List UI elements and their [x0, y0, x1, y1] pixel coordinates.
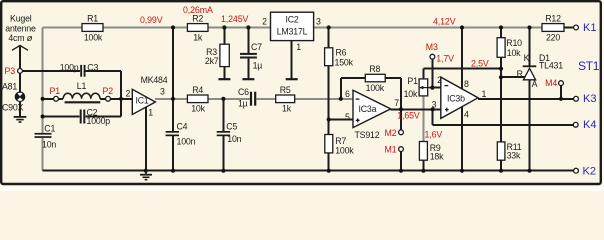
wire C3 to IC1 pin2 drop [86, 71, 122, 117]
svg-text:1,6V: 1,6V [425, 129, 443, 139]
ground bar R3 [218, 78, 230, 80]
svg-text:1,65V: 1,65V [397, 111, 420, 121]
svg-text:M1: M1 [384, 145, 396, 155]
wire left vertical R1-left / tank / C1 net [42, 28, 44, 171]
svg-text:R12: R12 [545, 14, 561, 24]
wire vertical x=173 (out node to C4) [172, 28, 174, 171]
svg-text:1,245V: 1,245V [221, 14, 249, 24]
svg-text:1000p: 1000p [87, 116, 111, 126]
wire R4 to C6 [208, 98, 250, 100]
svg-text:TL431: TL431 [539, 60, 563, 70]
wire P1 wiper [430, 87, 433, 89]
wire IC3a pin5 [329, 119, 353, 121]
svg-text:33k: 33k [507, 150, 521, 160]
wire P3 to C3 [22, 70, 80, 72]
capacitor C2 [80, 107, 111, 126]
wire P3 down to earpiece [19, 73, 21, 92]
svg-text:K1: K1 [583, 22, 596, 34]
svg-text:10k: 10k [191, 104, 205, 114]
svg-text:R5: R5 [280, 85, 291, 95]
wire C6 to R5 [256, 98, 275, 100]
svg-text:8: 8 [464, 79, 469, 89]
op-amp IC3a TS912 [345, 89, 399, 140]
svg-text:4: 4 [464, 110, 469, 120]
svg-text:5: 5 [345, 112, 350, 122]
wire pin3 node to K4 [433, 109, 574, 124]
wire R6 R7 divider vertical [328, 28, 330, 171]
wire tank row L1 / P1 / P2 to IC1 pin 2 [43, 98, 133, 100]
wire D1 cathode lead [529, 28, 531, 67]
node P1 [54, 96, 59, 101]
svg-text:3: 3 [432, 100, 437, 110]
svg-text:IC3b: IC3b [447, 94, 465, 104]
wire R8 feedback loop [341, 78, 401, 109]
svg-text:100n: 100n [177, 137, 196, 147]
svg-text:C1: C1 [44, 124, 55, 134]
svg-text:2,5V: 2,5V [471, 58, 489, 68]
node P3 [18, 69, 23, 74]
amplifier IC1 MK484 [125, 75, 167, 117]
wire pin2 node to IC3b [432, 87, 440, 89]
svg-text:C90X: C90X [2, 103, 24, 113]
wire M1 lead [400, 152, 402, 171]
svg-text:A: A [532, 79, 538, 89]
inductor L1 [63, 81, 100, 102]
resistor R4 [187, 85, 208, 114]
op-amp power regulator IC2 LM317L [262, 12, 321, 52]
potentiometer P1 [404, 76, 433, 99]
svg-text:LM317L: LM317L [277, 26, 308, 36]
svg-text:IC3a: IC3a [359, 104, 377, 114]
svg-text:Kugel: Kugel [10, 14, 32, 24]
svg-text:4,12V: 4,12V [433, 16, 456, 26]
terminal K1 [574, 25, 579, 30]
svg-text:R7: R7 [335, 136, 346, 146]
capacitor C6 [238, 87, 256, 109]
svg-text:C4: C4 [177, 121, 188, 131]
svg-text:2: 2 [437, 75, 442, 85]
svg-text:1k: 1k [193, 33, 203, 43]
wire M3 lead down to pin2 node [431, 59, 433, 88]
svg-text:IC1: IC1 [136, 96, 149, 106]
svg-text:1: 1 [148, 107, 153, 117]
svg-text:10n: 10n [42, 140, 56, 150]
svg-text:3: 3 [316, 17, 321, 27]
svg-text:M3: M3 [426, 42, 438, 52]
svg-text:1µ: 1µ [238, 99, 248, 109]
border frame [602, 0, 604, 191]
capacitor C5 [217, 121, 242, 144]
wire IC1 pin1 to ground rail [145, 107, 147, 171]
wire D1 anode lead down [529, 80, 531, 171]
ground (antenna earth) [14, 117, 27, 122]
resistor R1 [82, 14, 103, 43]
svg-text:100p: 100p [60, 62, 79, 72]
svg-text:1: 1 [296, 42, 301, 52]
svg-text:IC2: IC2 [285, 14, 298, 24]
svg-text:M2: M2 [384, 128, 396, 138]
resistor R2 [187, 14, 208, 43]
svg-text:K3: K3 [583, 93, 596, 105]
svg-text:10k: 10k [507, 48, 521, 58]
svg-text:MK484: MK484 [141, 75, 168, 85]
wire P1-bottom to R9 (1,6V net) [422, 96, 424, 142]
svg-text:10n: 10n [227, 134, 241, 144]
resistor R10 [497, 38, 522, 58]
wire R9 bottom lead [422, 160, 424, 171]
svg-text:100k: 100k [84, 33, 103, 43]
svg-text:2: 2 [262, 17, 267, 27]
svg-text:M4: M4 [545, 78, 557, 88]
node P2 [106, 96, 111, 101]
wire C2 row [43, 116, 121, 118]
node M2 [399, 130, 404, 135]
node M4 [559, 81, 564, 86]
svg-text:antenne: antenne [5, 23, 36, 33]
svg-text:C6: C6 [238, 87, 249, 97]
svg-text:1: 1 [482, 89, 487, 99]
resistor R5 [276, 85, 295, 114]
svg-text:P1: P1 [407, 76, 418, 86]
wire C7 leads [247, 28, 249, 79]
svg-text:0,26mA: 0,26mA [183, 5, 213, 15]
wire IC3b pin4 lead [461, 107, 463, 171]
terminal K4 [573, 122, 578, 127]
svg-text:K2: K2 [583, 166, 596, 178]
node M1 [399, 147, 404, 152]
wire IC2 pin1 to ground bar [291, 41, 293, 79]
svg-text:1,7V: 1,7V [436, 54, 454, 64]
wire IC3a out 1,65V row to IC3b pin3 [391, 108, 441, 110]
svg-text:2: 2 [125, 89, 130, 99]
svg-text:6: 6 [345, 89, 350, 99]
svg-text:P2: P2 [103, 86, 114, 96]
antenna (Kugelantenne) [5, 14, 36, 51]
svg-text:1µ: 1µ [253, 61, 263, 71]
svg-text:3: 3 [160, 86, 165, 96]
svg-text:R1: R1 [87, 14, 98, 24]
resistor R11 [497, 142, 521, 161]
svg-text:L1: L1 [77, 81, 87, 91]
svg-text:A81: A81 [2, 82, 17, 92]
capacitor C1 [35, 124, 57, 150]
svg-text:100k: 100k [366, 83, 385, 93]
wire M2 lead [400, 109, 402, 130]
wire M4 lead [560, 86, 562, 99]
svg-text:R8: R8 [369, 64, 380, 74]
svg-text:18k: 18k [430, 152, 444, 162]
svg-text:2k7: 2k7 [205, 56, 219, 66]
wire top supply rail (0,99V rail) [43, 28, 542, 171]
wire R12 to K1 [564, 27, 574, 29]
svg-text:220: 220 [546, 33, 560, 43]
svg-text:C5: C5 [226, 121, 237, 131]
wire R5 to IC3a pin6 [295, 98, 353, 100]
capacitor C4 [166, 121, 196, 146]
wire R10 leads / 2,5V node / R11 vertical [500, 28, 502, 171]
ground bar C7 [242, 78, 254, 80]
resistor R6 [325, 48, 354, 68]
svg-text:P3: P3 [5, 66, 16, 76]
wire antenna lead down to P3 [19, 47, 21, 69]
ground bar IC2 pin1 [286, 78, 298, 80]
wire IC3b pin8 supply lead [461, 28, 463, 89]
svg-text:P1: P1 [50, 86, 61, 96]
svg-text:R: R [517, 69, 523, 79]
svg-text:K4: K4 [583, 119, 596, 131]
resistor R7 [325, 135, 354, 156]
svg-text:R10: R10 [506, 38, 522, 48]
wire earpiece to earth [19, 102, 21, 117]
svg-text:R6: R6 [336, 48, 347, 58]
svg-text:1k: 1k [282, 104, 292, 114]
diode D1 TL431 [517, 53, 564, 89]
svg-text:K: K [524, 53, 530, 63]
wire D1 ref lead [501, 76, 525, 78]
svg-text:10k: 10k [404, 89, 418, 99]
svg-text:7: 7 [394, 98, 399, 108]
capacitor C7 [240, 42, 262, 71]
svg-text:R4: R4 [192, 85, 203, 95]
svg-text:100k: 100k [335, 146, 354, 156]
svg-text:C7: C7 [251, 42, 262, 52]
resistor R9 [419, 142, 444, 162]
earpiece A81 C90X [2, 82, 25, 113]
svg-text:0,99V: 0,99V [140, 15, 163, 25]
resistor R3 [205, 44, 229, 66]
op-amp IC3b TS912 [432, 75, 487, 120]
ground (bottom rail earth) [140, 171, 152, 180]
wire signal row IC1-out to R4 [155, 98, 187, 100]
resistor R12 [542, 14, 564, 43]
wire P1 top to 2,5V rail [423, 69, 501, 79]
wire R3 leads [223, 28, 225, 79]
svg-text:ST1: ST1 [578, 59, 600, 73]
wire IC3b output to K3 [478, 98, 573, 100]
terminal K3 [574, 96, 579, 101]
node M3 [430, 54, 435, 59]
resistor R8 [365, 64, 385, 93]
svg-text:4cm ø: 4cm ø [8, 33, 32, 44]
svg-text:150k: 150k [335, 58, 354, 68]
wire C5 vertical [222, 99, 224, 171]
svg-text:TS912: TS912 [355, 130, 380, 140]
svg-text:C3: C3 [87, 62, 98, 72]
wire bottom ground rail [43, 170, 574, 172]
capacitor C3 [60, 62, 99, 76]
terminal K2 [574, 168, 579, 173]
